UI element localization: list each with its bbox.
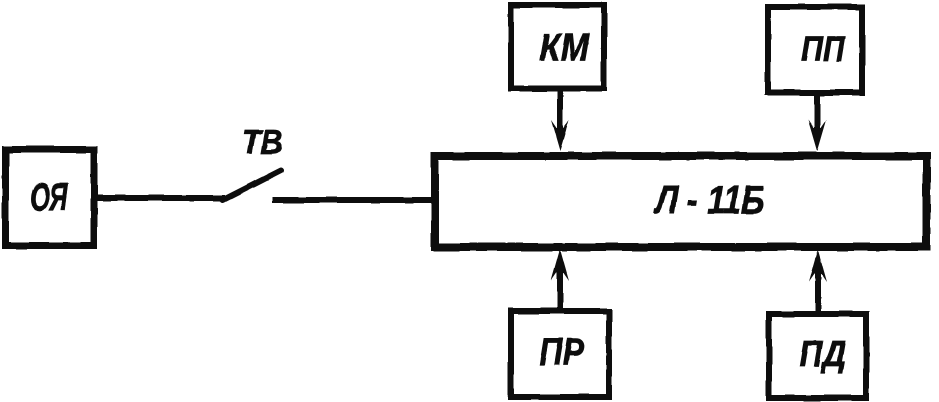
arrowhead PD into L-11B — [809, 250, 827, 282]
wire PD to L-11B — [815, 264, 821, 312]
switch TV blade — [223, 171, 281, 201]
svg-text:ОЯ: ОЯ — [30, 176, 69, 219]
wire KM to L-11B — [557, 88, 563, 138]
svg-text:ТВ: ТВ — [242, 124, 283, 162]
svg-text:Л - 11Б: Л - 11Б — [653, 179, 765, 222]
wire OYA to switch TV — [94, 195, 225, 201]
block PR box — [511, 311, 609, 397]
arrowhead PR into L-11B — [551, 249, 569, 281]
arrowhead PP into L-11B — [808, 120, 826, 151]
arrowhead KM into L-11B — [551, 120, 569, 151]
block OYA box — [6, 150, 95, 246]
block KM box — [511, 5, 604, 89]
svg-text:ПП: ПП — [801, 30, 846, 69]
svg-text:ПР: ПР — [539, 331, 584, 374]
svg-text:КМ: КМ — [539, 27, 590, 70]
block PP box — [768, 7, 862, 93]
wire PP to L-11B — [814, 92, 820, 138]
wire switch TV to L-11B — [272, 197, 438, 203]
block PD box — [769, 314, 866, 398]
block L-11B box — [435, 156, 927, 247]
wire PR to L-11B — [557, 264, 563, 310]
svg-text:ПД: ПД — [799, 333, 846, 374]
